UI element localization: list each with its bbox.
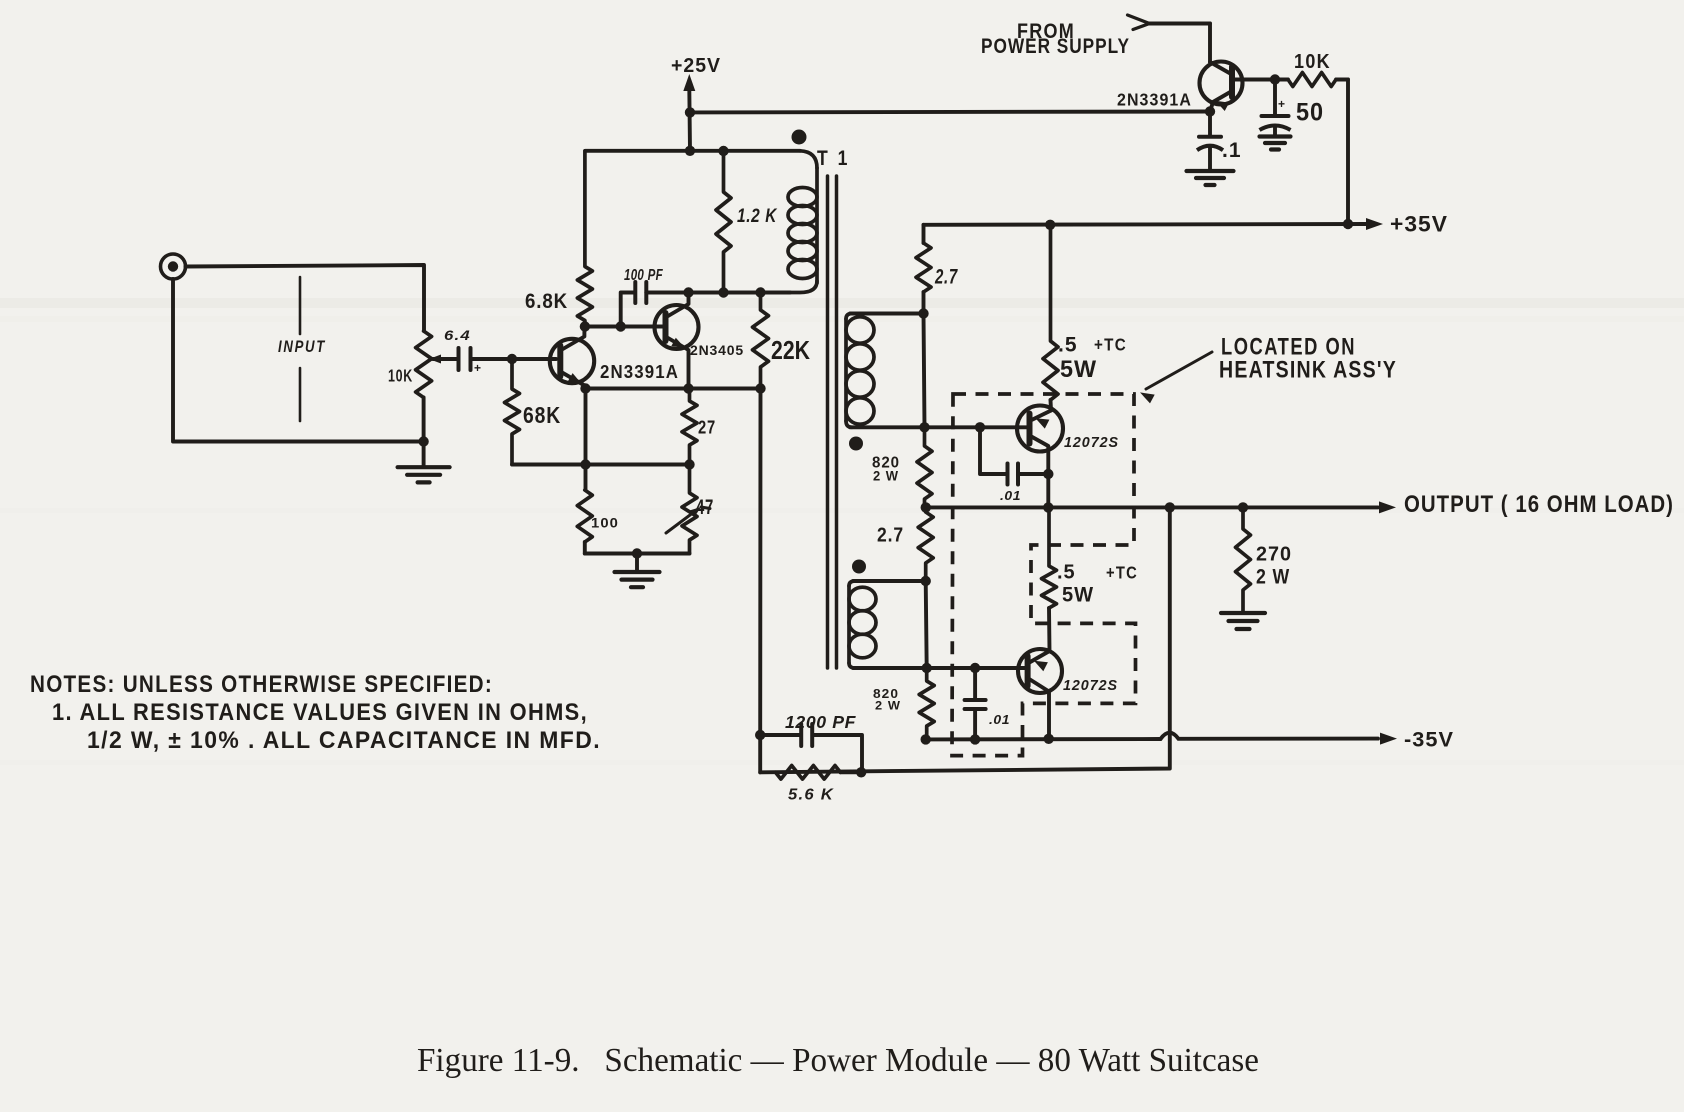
junction 47 top row465 xyxy=(684,459,694,469)
label OUTPUT xyxy=(1404,491,1674,518)
transistor Q4 12072S upper xyxy=(1017,406,1063,508)
svg-text:HEATSINK ASS'Y: HEATSINK ASS'Y xyxy=(1219,357,1397,384)
transistor Q2 2N3405 xyxy=(655,293,699,389)
label 27 xyxy=(698,417,716,438)
svg-text:2N3391A: 2N3391A xyxy=(1117,90,1192,110)
label 2.7 upper xyxy=(934,266,958,289)
wire base row Q2 xyxy=(585,325,665,329)
svg-text:+TC: +TC xyxy=(1106,563,1138,583)
caption figure title xyxy=(417,1042,1259,1079)
wire input bottom loop xyxy=(173,279,424,442)
notes line 2 xyxy=(52,699,588,726)
junction -35 x975 xyxy=(970,734,980,744)
resistor 1.2K xyxy=(716,151,731,293)
wire input top xyxy=(186,265,425,331)
label +TC lower xyxy=(1106,563,1138,583)
label 100 xyxy=(591,516,619,531)
label FROM xyxy=(1017,19,1075,43)
wire Q1 emitter column xyxy=(584,389,588,490)
wire 100PF elbow xyxy=(621,293,635,327)
junction -35 x1048 xyxy=(1044,734,1054,744)
label 2.7 lower xyxy=(877,525,904,547)
junction Q3 emitter rail xyxy=(1205,106,1215,116)
label 270 2W xyxy=(1256,566,1290,589)
wire output row xyxy=(926,501,1396,513)
transistor Q5 12072S lower xyxy=(1018,608,1062,739)
power rail +35V xyxy=(924,218,1384,230)
label +25V xyxy=(671,55,721,77)
svg-text:2 W: 2 W xyxy=(875,699,901,713)
junction 5.6K right xyxy=(856,767,866,777)
capacitor 6.4 xyxy=(459,348,513,370)
wire 10K down to +35V xyxy=(1346,80,1350,225)
svg-text:2N3405: 2N3405 xyxy=(690,343,744,358)
label 100PF xyxy=(624,267,663,284)
junction Q2 emitter row xyxy=(683,383,693,393)
svg-text:.01: .01 xyxy=(1000,489,1021,503)
wire input dashed divider upper xyxy=(299,277,302,334)
heatsink assembly dashed boundary xyxy=(952,394,1136,756)
resistor 27 xyxy=(682,389,697,465)
resistor 100 xyxy=(577,490,592,554)
node INPUT label xyxy=(278,337,326,356)
junction 100PF branch xyxy=(616,321,626,331)
transistor Q1 2N3391A xyxy=(550,327,594,389)
junction 22K top xyxy=(755,287,765,297)
junction 1200PF branch xyxy=(755,730,765,740)
power rail -35V xyxy=(926,733,1397,745)
junction 10K rail xyxy=(1343,219,1353,229)
resistor .5 5W lower xyxy=(1042,507,1057,608)
junction coil top row xyxy=(918,308,928,318)
transformer T1 secondary lower xyxy=(849,581,876,668)
wire rail y112 to Q3 xyxy=(690,110,1210,115)
wire output feedback column xyxy=(760,507,1170,772)
label .5 lower xyxy=(1057,562,1076,584)
resistor 22K xyxy=(753,293,769,389)
label +35V xyxy=(1390,212,1448,237)
junction -35 x925 xyxy=(921,734,931,744)
svg-text:Figure 11-9. Schematic — Pow: Figure 11-9. Schematic — Power Module — … xyxy=(417,1042,1259,1079)
label 5W upper xyxy=(1060,356,1097,383)
resistor 820 2W lower xyxy=(919,668,934,739)
label 10K bias xyxy=(1294,51,1331,73)
junction 22K bottom xyxy=(755,383,765,393)
transformer T1 primary winding xyxy=(788,151,817,293)
label 2W lower xyxy=(875,699,901,713)
svg-text:NOTES: UNLESS OTHERWISE SPECIF: NOTES: UNLESS OTHERWISE SPECIFIED: xyxy=(30,671,493,698)
ground under 100/47 xyxy=(615,554,660,588)
capacitor 1200PF xyxy=(760,724,862,772)
junction base Q1 / 68K xyxy=(507,354,517,364)
junction 1.2K top xyxy=(718,146,728,156)
junction .01 branch upper xyxy=(975,422,985,432)
svg-text:.1: .1 xyxy=(1222,139,1242,162)
label Q3 2N3391A xyxy=(1117,90,1192,110)
label 68K xyxy=(523,402,561,428)
svg-text:100: 100 xyxy=(591,516,619,531)
svg-text:POWER SUPPLY: POWER SUPPLY xyxy=(981,34,1130,58)
input connector J1 xyxy=(161,254,186,279)
svg-text:+TC: +TC xyxy=(1094,335,1127,355)
wire secondary lower top lead xyxy=(853,579,926,583)
junction base lower x926 xyxy=(922,663,932,673)
resistor .5 5W upper xyxy=(1043,225,1058,411)
svg-text:1.2 K: 1.2 K xyxy=(737,205,778,227)
label +TC upper xyxy=(1094,335,1127,355)
label .01 upper xyxy=(1000,489,1021,503)
svg-text:1200 PF: 1200 PF xyxy=(785,712,857,732)
resistor 68K xyxy=(505,360,520,465)
svg-text:10K: 10K xyxy=(1294,51,1331,73)
junction base row x924 xyxy=(919,422,929,432)
label Q4 12072S xyxy=(1064,434,1119,451)
svg-text:+: + xyxy=(474,361,481,375)
svg-text:10K: 10K xyxy=(388,366,413,386)
label 820 upper xyxy=(872,455,900,472)
label .01 lower xyxy=(989,713,1010,727)
junction ground row xyxy=(632,548,642,558)
label Q1 2N3391A xyxy=(600,362,679,382)
junction input-ground node xyxy=(418,436,428,446)
svg-text:27: 27 xyxy=(698,417,716,438)
svg-text:50: 50 xyxy=(1296,99,1324,127)
label 10K pot xyxy=(388,366,413,386)
svg-text:100 PF: 100 PF xyxy=(624,267,663,284)
svg-text:68K: 68K xyxy=(523,402,561,428)
label 47 xyxy=(696,496,714,519)
transformer primary phase dot xyxy=(792,130,807,145)
junction 1.2K bottom xyxy=(718,287,728,297)
svg-text:1/2 W, ± 10% . ALL CAPACITANCE: 1/2 W, ± 10% . ALL CAPACITANCE IN MFD. xyxy=(87,727,601,754)
wire pot wiper xyxy=(429,355,458,364)
svg-text:.5: .5 xyxy=(1057,562,1076,584)
wire base node Q1 xyxy=(512,357,556,361)
junction output x1170 xyxy=(1165,502,1175,512)
capacitor .1 xyxy=(1197,112,1223,171)
capacitor 50 xyxy=(1260,80,1291,137)
ground under .1 xyxy=(1187,171,1234,185)
resistor 270 2W xyxy=(1236,507,1251,611)
wire x923 column xyxy=(924,314,925,428)
svg-text:6.4: 6.4 xyxy=(444,328,471,343)
wire emitter row y388 xyxy=(586,387,761,391)
wire x925 column lower xyxy=(926,581,927,668)
capacitor .01 upper xyxy=(980,427,1048,484)
label 6.8K xyxy=(525,289,568,313)
wire Q3 base lead xyxy=(1232,78,1288,82)
label Q2 2N3405 xyxy=(690,343,744,358)
svg-text:2 W: 2 W xyxy=(1256,566,1290,589)
transformer secondary upper phase dot xyxy=(849,437,863,451)
svg-text:1. ALL RESISTANCE VALUES GIVEN: 1. ALL RESISTANCE VALUES GIVEN IN OHMS, xyxy=(52,699,588,726)
wire row y150 xyxy=(585,149,800,153)
junction 6.8K bottom xyxy=(580,321,590,331)
junction .01 branch lower xyxy=(970,663,980,673)
label 820 lower xyxy=(873,686,899,701)
label LOCATED ON xyxy=(1221,334,1356,361)
potentiometer 10K xyxy=(416,331,432,442)
resistor 10K bias xyxy=(1288,73,1348,87)
label 1.2K xyxy=(737,205,778,227)
junction Q2 collector xyxy=(683,287,693,297)
svg-text:47: 47 xyxy=(696,496,714,519)
label 5W lower xyxy=(1062,584,1094,607)
label 50 plus xyxy=(1278,97,1285,111)
resistor 47 variable xyxy=(666,465,710,554)
junction output x1243 xyxy=(1238,502,1248,512)
label 50 xyxy=(1296,99,1324,127)
label .5 upper xyxy=(1058,334,1078,357)
ground under 270 xyxy=(1221,613,1265,629)
junction +25V rail xyxy=(685,107,695,117)
label 6.4 xyxy=(444,328,471,343)
capacitor 100PF xyxy=(635,282,646,303)
svg-text:2 W: 2 W xyxy=(873,469,899,484)
wire secondary upper top lead xyxy=(850,312,924,316)
svg-text:5W: 5W xyxy=(1062,584,1094,607)
svg-text:22K: 22K xyxy=(771,335,810,365)
wire 22K column down xyxy=(758,389,762,773)
junction Q1 emitter row xyxy=(580,383,590,393)
label Q5 12072S xyxy=(1063,677,1118,694)
wire base row upper xyxy=(850,425,1029,429)
label T1 xyxy=(817,147,850,170)
resistor 2.7 upper xyxy=(916,225,931,314)
resistor 820 2W upper xyxy=(917,427,932,507)
junction row150 xyxy=(685,146,695,156)
svg-text:+: + xyxy=(1278,97,1285,111)
label 270 xyxy=(1256,544,1292,566)
svg-text:INPUT: INPUT xyxy=(278,337,326,356)
svg-text:5.6 K: 5.6 K xyxy=(788,787,834,804)
label 22K xyxy=(771,335,810,365)
capacitor .01 lower xyxy=(965,668,986,739)
label POWER SUPPLY xyxy=(981,34,1130,58)
label -35V xyxy=(1404,729,1454,752)
junction output x1048 xyxy=(1043,502,1053,512)
notes line 3 xyxy=(87,727,601,754)
wire collector row y292 xyxy=(646,291,790,295)
svg-text:2N3391A: 2N3391A xyxy=(600,362,679,382)
svg-text:.5: .5 xyxy=(1058,334,1078,357)
label 5.6K xyxy=(788,787,834,804)
svg-text:+25V: +25V xyxy=(671,55,721,77)
label .1 xyxy=(1222,139,1242,162)
svg-text:12072S: 12072S xyxy=(1063,677,1118,694)
junction output x925 xyxy=(921,502,931,512)
svg-text:.01: .01 xyxy=(989,713,1010,727)
wire row 68K-47 bottom xyxy=(512,463,690,467)
resistor 2.7 lower xyxy=(918,512,933,581)
junction coil lower row xyxy=(921,576,931,586)
label HEATSINK ASSY xyxy=(1219,357,1397,384)
wire input dashed divider lower xyxy=(299,368,302,421)
junction .01 collector upper xyxy=(1043,469,1053,479)
connector from power supply xyxy=(1128,15,1211,62)
ground under 50 xyxy=(1260,137,1291,150)
label 2W upper xyxy=(873,469,899,484)
junction 10K/50 xyxy=(1270,74,1280,84)
svg-text:2.7: 2.7 xyxy=(877,525,904,547)
svg-text:2.7: 2.7 xyxy=(934,266,958,289)
svg-text:T 1: T 1 xyxy=(817,147,850,170)
ground input xyxy=(398,442,450,483)
svg-text:5W: 5W xyxy=(1060,356,1097,383)
junction rail x1050 xyxy=(1045,220,1055,230)
wire bottom row 100-47 xyxy=(585,552,690,556)
svg-text:6.8K: 6.8K xyxy=(525,289,568,313)
wire base row lower xyxy=(853,666,1027,670)
power +25V arrow xyxy=(683,74,695,151)
label 1200PF xyxy=(785,712,857,732)
transformer T1 core xyxy=(828,176,837,668)
resistor 5.6K xyxy=(776,766,863,780)
svg-text:-35V: -35V xyxy=(1404,729,1454,752)
svg-text:12072S: 12072S xyxy=(1064,434,1119,451)
resistor 6.8K xyxy=(577,151,592,327)
notes line 1 xyxy=(30,671,493,698)
label 6.4 plus xyxy=(474,361,481,375)
transistor Q3 2N3391A xyxy=(1200,62,1243,112)
svg-text:270: 270 xyxy=(1256,544,1292,566)
transformer T1 secondary upper xyxy=(846,314,874,428)
svg-text:+35V: +35V xyxy=(1390,212,1448,237)
transformer secondary lower phase dot xyxy=(852,560,866,574)
junction emitter column row465 xyxy=(580,459,590,469)
svg-text:OUTPUT ( 16 OHM LOAD): OUTPUT ( 16 OHM LOAD) xyxy=(1404,491,1674,518)
heatsink label leader arrow xyxy=(1140,352,1212,403)
